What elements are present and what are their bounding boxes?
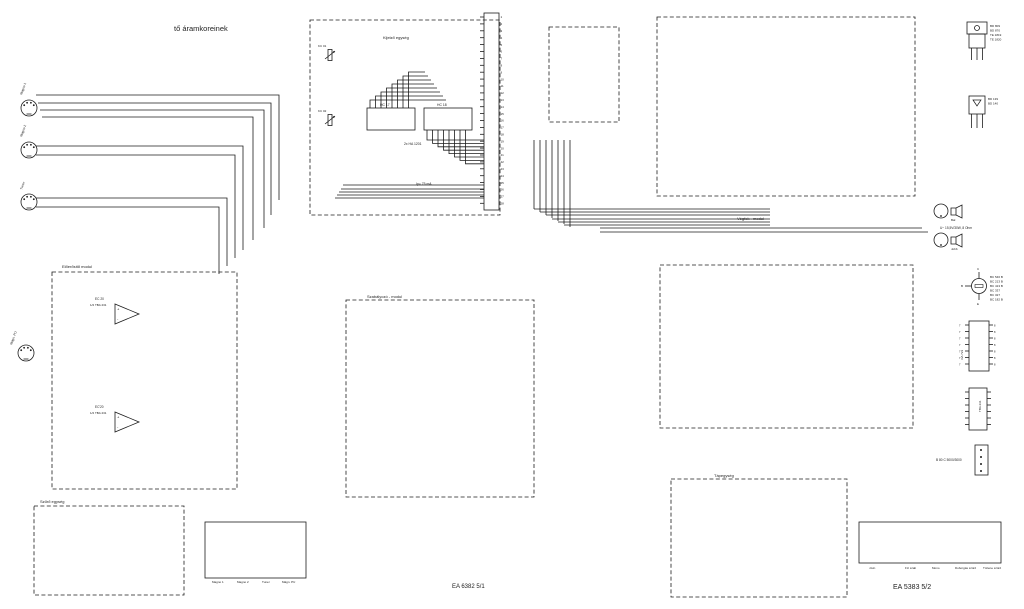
svg-text:Tápegység: Tápegység bbox=[714, 473, 734, 478]
svg-text:2x HA 1201: 2x HA 1201 bbox=[404, 142, 422, 146]
speaker Bal bbox=[951, 205, 962, 218]
connector pin stub bbox=[480, 78, 484, 80]
package drawing TO-220 BD809 bbox=[967, 22, 987, 34]
connector pin stub bbox=[480, 71, 484, 73]
connector pin stub bbox=[480, 57, 484, 59]
connector pin stub bbox=[480, 147, 484, 149]
svg-text:BC 327: BC 327 bbox=[990, 293, 1000, 297]
svg-text:U~ 15,5V/30W, 8 Ohm: U~ 15,5V/30W, 8 Ohm bbox=[940, 226, 972, 230]
svg-text:17: 17 bbox=[501, 126, 505, 130]
power amp module box channel 1 (Vegfok modul) bbox=[657, 17, 915, 196]
svg-text:28: 28 bbox=[501, 202, 505, 206]
svg-text:B 80 C 5000/3000: B 80 C 5000/3000 bbox=[936, 458, 962, 462]
connector pin stub bbox=[480, 30, 484, 32]
trimmer KF05 bbox=[328, 115, 332, 126]
preamp module box (Eloerosito modul) bbox=[52, 272, 237, 489]
input bus wire 8 bbox=[36, 207, 219, 274]
input bus wire 6 bbox=[36, 155, 235, 258]
svg-text:Szabályozó - modul: Szabályozó - modul bbox=[367, 294, 402, 299]
DIN socket Magn. PU bbox=[18, 345, 34, 361]
svg-text:HC 18: HC 18 bbox=[437, 103, 447, 107]
op-amp EC20 2/2 TBA231 channel B bbox=[115, 412, 139, 432]
svg-text:25: 25 bbox=[501, 181, 505, 185]
svg-text:BC 213 B: BC 213 B bbox=[990, 280, 1003, 284]
svg-text:13: 13 bbox=[501, 98, 505, 102]
package drawing TO-92 BC546 group bbox=[972, 279, 987, 294]
svg-text:24: 24 bbox=[501, 174, 505, 178]
control module box (Szabalyozo modul) bbox=[346, 300, 534, 497]
svg-text:19: 19 bbox=[501, 139, 505, 143]
svg-text:10: 10 bbox=[501, 77, 505, 81]
svg-text:1/2 TBA 231: 1/2 TBA 231 bbox=[90, 303, 107, 307]
connector pin stub bbox=[480, 195, 484, 197]
connector pin stub bbox=[480, 154, 484, 156]
input bus wire 3 bbox=[40, 110, 264, 228]
svg-text:J-kin: J-kin bbox=[869, 566, 876, 570]
speaker Jobb bbox=[951, 234, 962, 247]
DIN socket Tuner bbox=[21, 194, 37, 210]
svg-text:22: 22 bbox=[501, 160, 505, 164]
central bus horizontal lines to power amps bbox=[534, 208, 770, 210]
central bus vertical lines bbox=[533, 140, 535, 209]
connector pin stub bbox=[480, 202, 484, 204]
connector pin stub bbox=[480, 106, 484, 108]
connector pin stub bbox=[480, 99, 484, 101]
svg-text:HC 17: HC 17 bbox=[380, 103, 390, 107]
svg-text:Magno 2: Magno 2 bbox=[237, 580, 249, 584]
filter unit box (Szuro egyseg) bbox=[34, 506, 184, 595]
svg-text:Magno 1: Magno 1 bbox=[212, 580, 224, 584]
output jack Bal bbox=[934, 204, 948, 218]
svg-text:BD 139: BD 139 bbox=[988, 97, 998, 101]
svg-text:Végfok - modul: Végfok - modul bbox=[737, 216, 764, 221]
display box bottom exit wires bbox=[343, 184, 484, 186]
connector pin stub bbox=[480, 51, 484, 53]
connector pin stub bbox=[480, 23, 484, 25]
svg-text:15: 15 bbox=[501, 112, 505, 116]
svg-text:BC 413 B: BC 413 B bbox=[990, 284, 1003, 288]
display unit connector bar bbox=[484, 13, 499, 210]
svg-text:27: 27 bbox=[501, 195, 505, 199]
svg-text:Fiz szab: Fiz szab bbox=[905, 566, 917, 570]
package drawing bridge rectifier B80C5000 bbox=[975, 445, 988, 475]
svg-text:KC 01: KC 01 bbox=[318, 44, 327, 48]
svg-text:Mono: Mono bbox=[932, 566, 940, 570]
svg-text:KC 02: KC 02 bbox=[318, 109, 327, 113]
svg-text:Duborgás szürő: Duborgás szürő bbox=[955, 566, 977, 570]
input bus wire 7 bbox=[36, 198, 227, 266]
fan-out wires HC17 to connector bbox=[370, 100, 446, 108]
svg-text:mA 723: mA 723 bbox=[960, 349, 964, 360]
svg-text:TE 1820: TE 1820 bbox=[990, 38, 1002, 42]
svg-text:TBA 231: TBA 231 bbox=[978, 400, 982, 412]
connector pin stub bbox=[480, 161, 484, 163]
trimmer KF04 bbox=[328, 50, 332, 61]
svg-text:Tüzene szürő: Tüzene szürő bbox=[983, 566, 1002, 570]
input bus wire 5 bbox=[36, 146, 243, 250]
connector pin stub bbox=[480, 64, 484, 66]
legend block bottom left bbox=[205, 522, 306, 578]
op-amp EC20 1/2 TBA231 channel A bbox=[115, 304, 139, 324]
svg-text:Kijelző egység: Kijelző egység bbox=[383, 35, 409, 40]
svg-text:EA 5383 5/2: EA 5383 5/2 bbox=[893, 584, 931, 591]
svg-text:EC 20: EC 20 bbox=[95, 297, 104, 301]
connector pin stub bbox=[480, 44, 484, 46]
input bus wire 4 bbox=[42, 117, 253, 240]
connector pin stub bbox=[480, 85, 484, 87]
connector pin stub bbox=[480, 175, 484, 177]
connector pin stub bbox=[480, 182, 484, 184]
svg-text:16: 16 bbox=[501, 119, 505, 123]
connector pin stub bbox=[480, 37, 484, 39]
svg-text:20: 20 bbox=[501, 146, 505, 150]
power amp module box channel 2 bbox=[660, 265, 913, 428]
svg-text:EA 6382 5/1: EA 6382 5/1 bbox=[452, 584, 485, 590]
connector pin stub bbox=[480, 140, 484, 142]
svg-text:18: 18 bbox=[501, 133, 505, 137]
svg-text:Bal: Bal bbox=[951, 218, 956, 222]
connector pin stub bbox=[480, 113, 484, 115]
svg-text:E: E bbox=[977, 302, 979, 306]
svg-text:14: 14 bbox=[501, 105, 505, 109]
bus lines to speakers bbox=[600, 227, 922, 229]
display IC HC17 bbox=[367, 108, 415, 130]
svg-text:tő áramkoreinek: tő áramkoreinek bbox=[174, 24, 228, 33]
display unit box (Kijelzo egyseg) bbox=[310, 20, 500, 215]
power supply box (Tapegyseg) bbox=[671, 479, 847, 597]
legend block bottom right bbox=[859, 522, 1001, 563]
svg-text:EC'20: EC'20 bbox=[95, 405, 104, 409]
connector pin stub bbox=[480, 120, 484, 122]
svg-text:Jobb: Jobb bbox=[951, 247, 958, 251]
svg-text:Előerősítő modul: Előerősítő modul bbox=[62, 264, 92, 269]
fan-out wires HC18 to connector bbox=[427, 130, 484, 140]
svg-text:BD 140: BD 140 bbox=[988, 102, 998, 106]
svg-text:BD 809: BD 809 bbox=[990, 24, 1000, 28]
svg-text:TE 1819: TE 1819 bbox=[990, 33, 1002, 37]
svg-text:BC 182 B: BC 182 B bbox=[990, 298, 1003, 302]
connector pin stub bbox=[480, 133, 484, 135]
svg-text:B: B bbox=[961, 284, 963, 288]
svg-text:BC 337: BC 337 bbox=[990, 289, 1000, 293]
connector pin stub bbox=[480, 189, 484, 191]
svg-text:Szűrő egység: Szűrő egység bbox=[40, 499, 64, 504]
input bus wire 2 bbox=[38, 103, 271, 215]
svg-text:12: 12 bbox=[501, 91, 505, 95]
connector pin stub bbox=[480, 126, 484, 128]
package drawing TO-126 BD139/BD140 bbox=[969, 96, 985, 114]
monitor switch box bbox=[549, 27, 619, 122]
input bus wire 1 bbox=[36, 95, 279, 200]
svg-text:26: 26 bbox=[501, 188, 505, 192]
connector pin stub bbox=[480, 168, 484, 170]
package drawing DIP IC TBA231 bbox=[969, 388, 987, 430]
svg-text:Tuner: Tuner bbox=[262, 580, 270, 584]
svg-text:BD 870: BD 870 bbox=[990, 29, 1000, 33]
display IC HC18 bbox=[424, 108, 472, 130]
output jack Jobb bbox=[934, 233, 948, 247]
svg-text:11: 11 bbox=[501, 84, 504, 88]
svg-text:21: 21 bbox=[501, 153, 505, 157]
svg-text:1/2 TBA 231: 1/2 TBA 231 bbox=[90, 411, 107, 415]
connector pin stub bbox=[480, 16, 484, 18]
svg-text:BC 546 B: BC 546 B bbox=[990, 275, 1003, 279]
svg-text:Mágn. PU: Mágn. PU bbox=[282, 580, 295, 584]
DIN socket Magno 2 bbox=[21, 142, 37, 158]
DIN socket Magno 1 bbox=[21, 100, 37, 116]
svg-text:23: 23 bbox=[501, 167, 505, 171]
connector pin stub bbox=[480, 92, 484, 94]
package drawing DIP IC MAA723 bbox=[969, 321, 989, 371]
